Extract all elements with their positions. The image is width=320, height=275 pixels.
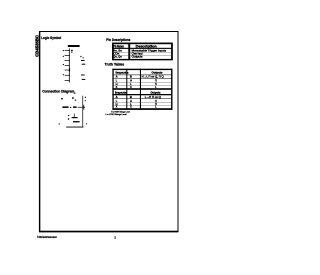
capacitor C1 plus mark [82, 105, 85, 110]
svg-text:X: X [116, 85, 118, 89]
heading Pin Descriptions [106, 37, 131, 42]
pin table row 3 [113, 54, 143, 58]
pin table row 2 [113, 52, 143, 56]
pin table row 1 [113, 49, 167, 53]
output pin labels section 2 [81, 75, 85, 80]
node label top [74, 93, 76, 94]
truth table 2 rows [116, 99, 157, 103]
footer copyright [37, 235, 57, 239]
wire vertical right rail [81, 96, 84, 128]
node dot [70, 107, 71, 108]
svg-text:B: B [130, 95, 132, 99]
svg-text:A: A [116, 75, 118, 79]
footer page number [114, 235, 116, 239]
svg-text:X: X [130, 85, 132, 89]
heading Truth Tables [105, 62, 125, 67]
pin table header text [114, 44, 157, 48]
pin stub input 1 [65, 49, 70, 52]
svg-text:Description: Description [136, 44, 157, 48]
pin number dots left [63, 50, 64, 75]
heading Connection Diagram [42, 88, 74, 93]
svg-text:Π: Π [155, 78, 157, 82]
svg-text:H: H [130, 78, 132, 82]
pin dots right of rail [85, 97, 86, 102]
svg-text:Outputs: Outputs [151, 90, 161, 94]
label dots left of cap [68, 115, 69, 120]
svg-text:Pin Names: Pin Names [114, 44, 124, 48]
svg-text:Inputs: Inputs [115, 90, 127, 94]
sidebar part number (vertical) [34, 34, 39, 56]
pin stub input 3 [65, 59, 70, 62]
pin stub input 4 [65, 64, 70, 67]
label dash [73, 106, 77, 108]
logic symbol U1 box outline [68, 48, 71, 82]
pin table frame [112, 43, 172, 60]
svg-text:CD4538BC: CD4538BC [34, 34, 39, 56]
svg-text:X: X [116, 105, 118, 109]
svg-text:X: X [130, 105, 132, 109]
wire bottom ground return [66, 126, 83, 129]
truth table 2 header [115, 90, 161, 94]
svg-text:© 2000 Fairchild Semiconductor: © 2000 Fairchild Semiconductor [37, 235, 57, 239]
pin dot bottom right [86, 123, 87, 124]
capacitor C2 stub [73, 114, 76, 118]
svg-text:L→H Π on Q: L→H Π on Q [145, 96, 161, 99]
pin stub input 7 [65, 79, 70, 82]
svg-text:Logic Symbol: Logic Symbol [41, 35, 61, 40]
svg-text:Outputs: Outputs [132, 54, 144, 58]
label RX/CX [62, 106, 68, 108]
svg-text:Outputs: Outputs [152, 71, 163, 75]
logic symbol U1 label bar [68, 45, 80, 47]
svg-text:Inputs: Inputs [116, 71, 129, 75]
truth table 2 frame [112, 90, 172, 110]
capacitor C2 plate 2 [73, 121, 80, 122]
svg-text:Qn, Qn: Qn, Qn [113, 54, 122, 58]
svg-text:L = LOW Voltage Level: L = LOW Voltage Level [106, 113, 127, 116]
heading Logic Symbol [41, 35, 61, 40]
truth table 2 subheader [116, 95, 161, 99]
svg-text:Pin Descriptions: Pin Descriptions [106, 37, 131, 42]
truth table 1 header [116, 71, 163, 75]
node label mid-top [72, 97, 76, 100]
svg-text:Connection Diagram: Connection Diagram [42, 88, 74, 93]
truth table 1 rows [116, 78, 157, 82]
svg-text:B: B [130, 75, 132, 79]
logic symbol function label inside [71, 50, 73, 53]
svg-text:Truth Tables: Truth Tables [105, 62, 125, 67]
truth table footnote [106, 111, 131, 116]
capacitor C2 plate 1 [72, 117, 78, 118]
wire horizontal to rail [78, 106, 86, 109]
pin dot bottom left [59, 123, 60, 124]
pin stub input 5 (plus tick) [65, 68, 71, 71]
output pin labels section 1 [80, 56, 85, 65]
pin stub input 6 [65, 74, 70, 77]
truth table 1 subheader [116, 75, 164, 79]
truth table 1 frame [112, 69, 172, 90]
pin stub input 2 [65, 54, 70, 57]
node label left [61, 98, 63, 100]
page frame [39, 31, 178, 232]
svg-text:A: A [116, 95, 118, 99]
svg-text:H→L Π on Q, Π Q: H→L Π on Q, Π Q [142, 76, 164, 79]
